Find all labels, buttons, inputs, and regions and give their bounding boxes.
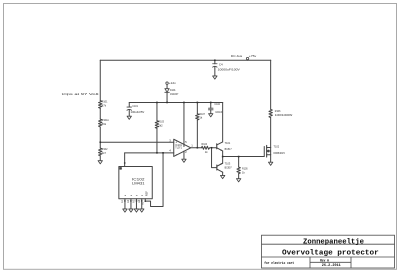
- svg-text:+12v: +12v: [169, 81, 177, 85]
- IC102 pin 1 end square: [124, 200, 126, 202]
- svg-text:T102: T102: [274, 144, 280, 148]
- resistor R104: [201, 146, 209, 149]
- svg-text:56k: 56k: [102, 122, 107, 126]
- svg-text:T101: T101: [225, 141, 231, 145]
- IC102 pin 2 end square: [130, 200, 132, 202]
- ground under T103: [220, 175, 224, 178]
- ground under IC102 pin 2: [129, 209, 133, 212]
- junction push-pull node: [222, 156, 224, 158]
- svg-text:C4: C4: [219, 62, 223, 66]
- svg-text:+75v: +75v: [249, 54, 257, 58]
- wire rail corner down to T101 collector: [222, 102, 224, 142]
- wire node A vertical: [99, 127, 101, 148]
- IC102 internal pin arrow 1: [124, 195, 126, 196]
- svg-text:10R/1000W: 10R/1000W: [275, 113, 293, 117]
- svg-text:C102: C102: [214, 102, 220, 106]
- IC102 top pin square: [124, 162, 126, 164]
- IC102 pin REF end square: [145, 200, 147, 202]
- wire minus input down to IC102 top pin: [124, 153, 126, 167]
- svg-text:trips at 97 Volt: trips at 97 Volt: [62, 92, 99, 96]
- svg-text:47k: 47k: [102, 104, 107, 108]
- junction rail R103: [156, 102, 158, 104]
- svg-text:10000uF/100V: 10000uF/100V: [218, 67, 240, 71]
- ground under T102: [268, 162, 272, 165]
- wire R104 to T101 base: [210, 147, 217, 149]
- wire op-amp V+ pin 5 to rail: [183, 102, 185, 146]
- svg-text:2k7: 2k7: [102, 151, 107, 155]
- svg-text:BC817: BC817: [225, 147, 232, 151]
- transistor T103: [216, 165, 218, 170]
- svg-text:DC-bus: DC-bus: [231, 54, 243, 58]
- junction output T103 base branch: [211, 147, 213, 149]
- svg-text:for electric cart: for electric cart: [264, 261, 294, 265]
- svg-text:LM431: LM431: [132, 181, 145, 185]
- resistor R102: [99, 148, 102, 156]
- wire 12V rail: [129, 101, 223, 103]
- svg-text:+: +: [175, 141, 177, 145]
- svg-text:R104: R104: [202, 142, 208, 146]
- IC102 internal pin arrow 2: [130, 195, 132, 196]
- svg-text:26-2-2011: 26-2-2011: [322, 263, 341, 267]
- wire DC-bus top: [100, 59, 271, 61]
- op-amp U IC101 triangle: [174, 139, 191, 156]
- junction rail op-amp V+: [183, 102, 185, 104]
- wire op-amp output: [191, 147, 202, 149]
- wire R106 to top: [270, 60, 272, 109]
- ground under op-amp: [182, 159, 186, 162]
- wire node to MOSFET gate: [223, 156, 265, 158]
- IC102 pin 3 end square: [136, 200, 138, 202]
- junction DC-bus C4: [214, 59, 216, 61]
- wire IC102 pin 2 stub: [130, 199, 132, 209]
- resistor R103: [156, 102, 158, 120]
- ground under IC102 pin 4: [140, 209, 144, 212]
- wire op-amp minus input: [125, 152, 174, 154]
- wire R102 to ground: [99, 156, 101, 161]
- ground under IC102 pin 1: [123, 209, 127, 212]
- resistor R106: [269, 109, 272, 117]
- ground under IC102 pin 3: [134, 209, 138, 212]
- wire branch to T103 base: [212, 148, 217, 168]
- IC102 internal pin arrow 3: [136, 195, 138, 196]
- svg-text:1N4007: 1N4007: [170, 92, 179, 96]
- wire IC102 pin 4 stub: [141, 199, 143, 209]
- IC102 internal pin arrow 4: [141, 195, 143, 196]
- title block: [262, 235, 395, 268]
- svg-text:100nF: 100nF: [215, 110, 222, 114]
- wire push-pull node: [222, 151, 224, 163]
- transistor T102 MOSFET: [263, 147, 265, 157]
- terminal +75v: [246, 57, 248, 59]
- resistor R101A: [99, 119, 102, 127]
- svg-text:BC807: BC807: [225, 166, 232, 170]
- wire source to ground: [270, 155, 272, 162]
- svg-text:1k: 1k: [205, 150, 208, 154]
- junction minus input feedback: [162, 152, 164, 154]
- ground under R105: [236, 179, 240, 182]
- svg-text:IRFB4615: IRFB4615: [274, 151, 286, 155]
- capacitor C102: [210, 102, 212, 108]
- junction rail D101: [166, 102, 168, 104]
- junction rail C102: [210, 102, 212, 104]
- ground under C101: [127, 116, 131, 119]
- svg-text:Rev A: Rev A: [320, 258, 329, 262]
- capacitor C4: [214, 60, 216, 64]
- junction output R107: [197, 147, 199, 149]
- wire op-amp V- pin 2 to ground: [183, 151, 185, 159]
- junction rail R107: [197, 102, 199, 104]
- wire IC102 pin 3 stub: [135, 199, 137, 209]
- resistor R105: [238, 157, 240, 168]
- svg-text:C101: C101: [132, 104, 138, 108]
- wire feedback REF to minus input: [145, 153, 163, 207]
- resistor R101: [99, 101, 102, 109]
- svg-text:TL071: TL071: [175, 146, 182, 149]
- wire left divider chain top: [99, 60, 101, 100]
- svg-text:REF: REF: [145, 191, 149, 197]
- ground under R102: [98, 161, 102, 164]
- junction node A divider tap: [99, 141, 101, 143]
- wire IC102 pin 1 stub: [124, 199, 126, 209]
- junction minus input R103: [156, 152, 158, 154]
- wire node A to op-amp plus input: [100, 141, 174, 143]
- junction gate wire R105: [238, 156, 240, 158]
- wire drain to R106: [270, 118, 272, 148]
- resistor R107: [196, 102, 198, 113]
- svg-text:1k: 1k: [242, 170, 245, 174]
- IC102 box: [119, 166, 152, 198]
- wire R101 to R101A: [99, 108, 101, 119]
- transistor T101: [216, 144, 218, 149]
- svg-text:2k2: 2k2: [158, 123, 163, 127]
- IC102 pin 4 end square: [141, 200, 143, 202]
- svg-text:Overvoltage protector: Overvoltage protector: [282, 250, 379, 258]
- ground under C4: [213, 76, 217, 79]
- svg-text:100uF/25V: 100uF/25V: [131, 110, 145, 114]
- capacitor C101: [128, 102, 130, 107]
- svg-text:Zonnepaneeltje: Zonnepaneeltje: [303, 238, 364, 246]
- diode D101: [166, 82, 168, 84]
- ground under C102: [209, 114, 213, 117]
- svg-text:-: -: [176, 152, 177, 156]
